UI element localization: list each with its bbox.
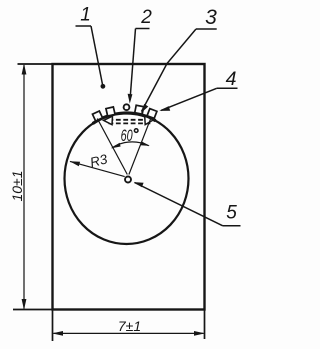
callout 2 underline [136,28,150,30]
tooth square S1 (far left) [92,111,102,121]
bottom extension line (left of plate, for 10±1) [13,309,53,311]
plate rectangle outline [53,64,205,310]
tooth circle C (middle, pointed by 2) [124,104,130,110]
right extension below plate (for 7±1) [204,310,206,340]
svg-text:2: 2 [140,7,152,28]
callout 5 text [226,203,237,224]
angle text 60° [121,127,138,145]
callout 3 leader with arrow [141,29,196,113]
radius text R3 [89,151,110,170]
callout 4 underline [217,87,238,89]
svg-text:5: 5 [226,203,237,224]
left extension below plate (for 7±1) [52,310,54,342]
vertical dimension line 10±1 [22,64,27,311]
callout 1 text [80,5,91,26]
callout 5 leader with arrow [134,182,223,226]
horizontal dimension line 7±1 [52,331,205,336]
callout 4 leader with arrow [159,88,216,111]
svg-text:1: 1 [80,5,91,26]
top extension line (left of plate, for 10±1) [18,63,53,65]
callout 3 text [205,6,217,29]
callout 3 underline [196,28,217,30]
dimension text 10±1 [9,170,25,201]
dimension text 7±1 [118,318,141,334]
callout 2 leader with arrow [128,29,136,104]
callout 2 text [140,7,152,28]
svg-text:3: 3 [205,6,217,29]
callout 1 leader with end dot [91,26,105,89]
tooth square S2 [106,107,115,116]
thickened arc under teeth [93,113,156,124]
svg-text:4: 4 [226,68,237,90]
60° angle left leg [97,119,127,175]
angle arc with arrows [111,142,150,149]
big circle (disc) [65,113,189,244]
svg-text:60: 60 [121,127,134,145]
60° angle right leg [129,119,151,175]
callout 5 underline [223,225,241,227]
center mark small circle [125,177,131,183]
hidden slot dashed lines (double dashed) [109,120,151,124]
tooth square S3 [135,105,144,114]
slot left open arrowhead [104,116,113,125]
radius leader R3 [70,161,125,176]
callout 1 underline [76,25,92,27]
tooth square S4 (far right, pointed by 4) [147,109,157,119]
svg-text:7±1: 7±1 [118,318,141,334]
svg-text:10±1: 10±1 [9,170,25,201]
callout 4 text [226,68,237,90]
slot right open arrowhead [145,116,154,125]
